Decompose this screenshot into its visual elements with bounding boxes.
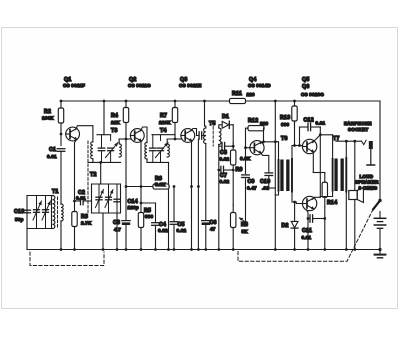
wire earphone line (336, 140, 362, 142)
wire T7 secondary bottom to ground (345, 192, 347, 250)
wire R5 top to C4 (141, 202, 156, 204)
capacitor C4 (155, 203, 157, 222)
capacitor C13 plates (24, 209, 31, 211)
svg-text:0.01: 0.01 (47, 154, 57, 159)
svg-text:Q5: Q5 (302, 77, 310, 83)
inductor T7 primary winding line (332, 159, 334, 191)
wire right rail down to switch (379, 101, 381, 200)
transistor Q5 (302, 139, 316, 153)
wire C1 to T1 secondary (60, 151, 62, 204)
svg-text:T4: T4 (160, 128, 167, 134)
inductor T3 winding (119, 144, 121, 157)
wire R4 to Q2 base (125, 135, 127, 139)
earphone switch contact (362, 140, 367, 144)
svg-text:C13: C13 (14, 209, 24, 215)
svg-text:T1: T1 (52, 189, 59, 195)
node top rail R4 (125, 100, 128, 103)
wire speaker to ground (354, 200, 356, 250)
svg-text:T3: T3 (111, 128, 118, 134)
svg-text:0.01: 0.01 (76, 196, 86, 201)
capacitor C12 (300, 126, 308, 128)
svg-text:CS 9011H: CS 9011H (179, 83, 202, 88)
svg-text:C3: C3 (113, 220, 120, 226)
wire long supply drop (274, 101, 276, 250)
wire R13 to Q5 base (294, 121, 296, 146)
capacitor C6 electrolytic (202, 220, 210, 222)
svg-text:C1: C1 (49, 147, 56, 153)
node R3 ground (73, 248, 76, 251)
node R4 T3 junction (125, 138, 128, 141)
dashed gang link left (30, 252, 104, 266)
node Q2 emitter R5 (140, 202, 143, 205)
inductor T5 secondary winding (219, 128, 221, 145)
svg-text:CS 9014D: CS 9014D (248, 83, 271, 88)
inductor T1 secondary winding (61, 204, 63, 221)
wire T3 bus drop to oscillator box (100, 162, 102, 184)
svg-text:SOCKET: SOCKET (348, 127, 368, 132)
svg-text:C9: C9 (248, 179, 255, 185)
svg-text:EARPHONE: EARPHONE (344, 121, 372, 126)
earphone jack stem (370, 149, 372, 165)
svg-text:LOUD: LOUD (360, 174, 374, 179)
earphone jack tip (369, 141, 373, 149)
wire R12 left to Q4 base (245, 128, 247, 148)
resistor R6 (126, 186, 153, 188)
wire R14 bottom to ground (324, 207, 326, 250)
wire Q6 collector up (313, 197, 321, 199)
wire T4 bus drop to ground (168, 162, 170, 249)
wire Q4 emitter to C10 (261, 153, 269, 172)
inductor T4 winding (167, 144, 169, 157)
resistor R11 in top rail (229, 100, 231, 102)
wire switch to battery (379, 212, 381, 218)
wire battery to ground rail (379, 228, 381, 249)
svg-text:4.7: 4.7 (114, 227, 121, 232)
svg-text:5K: 5K (242, 229, 249, 234)
wire bottom ground rail (27, 249, 381, 251)
wire T5 secondary bottom down (218, 145, 220, 250)
svg-text:R11: R11 (232, 91, 242, 97)
svg-text:Q6: Q6 (302, 84, 310, 90)
wire Q4 collector junction (260, 142, 278, 144)
node switch pivot (378, 199, 381, 202)
node C5 top (173, 185, 176, 188)
svg-text:0.47: 0.47 (247, 186, 257, 191)
svg-text:R8: R8 (241, 222, 248, 228)
wire Q2 emitter down (140, 142, 142, 203)
wire Q3 emitter down (191, 142, 193, 250)
variable capacitor oscillator a (98, 184, 100, 213)
svg-text:R12: R12 (248, 118, 258, 124)
wire top supply rail right of R11 (246, 100, 381, 102)
inductor T6 secondary winding line (291, 159, 293, 192)
inductor T2 feedback winding (91, 142, 93, 159)
wire emitter to R14 line (313, 172, 325, 174)
node C4 ground (154, 248, 157, 251)
wire Q1 emitter down (75, 139, 77, 198)
capacitor C14 padder (116, 184, 118, 213)
svg-text:50p: 50p (15, 217, 24, 222)
wire C12 right leg to collector node (319, 127, 321, 135)
capacitor C11 (308, 218, 309, 220)
core of T1 dashed (57, 197, 59, 227)
capacitor C8 (219, 145, 222, 147)
svg-text:C12: C12 (304, 118, 314, 124)
svg-text:SPEAKER: SPEAKER (355, 180, 379, 185)
wire Q5 collector to T7 line (313, 135, 333, 143)
svg-text:22K: 22K (111, 120, 121, 125)
wire T6 primary bottom to supply (275, 191, 278, 196)
inductor T7 secondary winding line (345, 158, 347, 192)
trimmer capacitor T4 (160, 135, 162, 141)
variable capacitor gang section b (45, 196, 47, 229)
svg-text:820: 820 (260, 121, 269, 126)
node C6 ground (204, 248, 207, 251)
resistor R7 (174, 101, 176, 108)
capacitor C1 (57, 148, 65, 150)
wire T6 secondary top to Q5 base (292, 146, 302, 160)
svg-text:C8: C8 (220, 150, 227, 156)
node C3 ground (125, 248, 128, 251)
svg-text:T6: T6 (281, 136, 288, 142)
svg-text:8 OHMS: 8 OHMS (359, 186, 378, 191)
svg-text:T5: T5 (209, 121, 216, 127)
transistor Q2 (130, 129, 144, 143)
svg-text:100K: 100K (42, 116, 54, 121)
svg-text:R14: R14 (327, 200, 337, 206)
dashed core T5 (212, 127, 214, 147)
wire T4 top bus (152, 134, 175, 136)
wire speaker feed (354, 141, 356, 190)
svg-text:220K: 220K (159, 120, 171, 125)
wire wiper to C9 (245, 179, 247, 222)
variable capacitor gang section a (36, 196, 38, 229)
dashed core T2 (87, 141, 89, 213)
wire T1 secondary to ground rail (60, 221, 62, 250)
core T7 bar right (341, 159, 344, 192)
svg-text:C11: C11 (302, 228, 312, 234)
capacitor C5 (173, 187, 175, 222)
svg-text:R7: R7 (160, 113, 167, 119)
transistor Q3 (181, 129, 195, 143)
svg-text:0.01: 0.01 (302, 235, 312, 240)
trimmer capacitor T3 (110, 135, 112, 141)
node C8 right (232, 145, 235, 148)
svg-text:R13: R13 (280, 115, 290, 121)
wire C6 to ground rail (205, 225, 207, 249)
earphone jack base (367, 164, 375, 166)
dashed switch link (238, 209, 374, 262)
core T6 bar left (280, 160, 283, 192)
svg-text:C6: C6 (210, 220, 217, 226)
core T7 bar left (334, 159, 337, 192)
wire T7 primary bottom to push pull (320, 191, 332, 197)
svg-text:390: 390 (145, 214, 154, 219)
wire Q2 collector to T4 winding (140, 127, 147, 143)
resistor R2 (60, 101, 62, 108)
wire R7 to Q3 base (174, 135, 176, 139)
svg-text:CS 9011F: CS 9011F (63, 83, 85, 88)
wire Q3 collector to coupling cap (191, 129, 197, 136)
wire C2 left junction (74, 199, 76, 206)
wire T4 winding bottom to bus (146, 159, 148, 162)
capacitor T4 tank cap (152, 135, 154, 148)
transistor Q1 (66, 127, 80, 141)
node R7 T4 junction (174, 138, 177, 141)
wire oscillator box left to ground rail (102, 213, 104, 250)
wire rail drop to T3 top bus (103, 101, 105, 135)
svg-text:680: 680 (281, 122, 290, 127)
node top rail R7 (174, 100, 177, 103)
node R6 left (125, 185, 128, 188)
capacitor C10 (265, 172, 273, 174)
wire R9 to R8 (232, 170, 234, 205)
svg-text:.01: .01 (262, 186, 269, 191)
resistor R4 (125, 101, 127, 108)
svg-text:T2: T2 (90, 172, 97, 178)
svg-text:D2: D2 (282, 223, 289, 229)
wire gang box to ground rail (26, 229, 28, 250)
ground symbol (379, 250, 381, 255)
svg-text:0.02: 0.02 (220, 179, 230, 184)
resistor R5 (140, 203, 142, 213)
wire R2 to Q1 base junction (60, 130, 62, 146)
svg-text:47: 47 (210, 227, 216, 232)
svg-text:R3: R3 (81, 214, 88, 220)
svg-text:220: 220 (247, 92, 256, 97)
wiper arrow R8 (240, 218, 246, 222)
transistor Q4 (250, 141, 264, 155)
wire T7 secondary top to earphone line (345, 141, 347, 158)
svg-text:CS 9013G: CS 9013G (301, 92, 324, 97)
node C7 junction (232, 169, 235, 172)
core T6 bar right (286, 160, 289, 192)
loudspeaker (349, 191, 357, 200)
svg-text:0.02: 0.02 (158, 228, 168, 233)
wire T3 bottom bus (88, 161, 121, 163)
tuning gang box C13 (27, 196, 52, 229)
wire T5 primary bottom to C6 line (205, 144, 207, 221)
wire T2 winding bottom to bus (92, 159, 94, 163)
capacitor C9 (242, 174, 250, 176)
resistor R3 (74, 205, 76, 212)
svg-text:2.7K: 2.7K (81, 221, 92, 226)
wire R4 line down to R6 line (125, 139, 127, 187)
svg-text:R4: R4 (111, 113, 118, 119)
on-off switch lever (373, 201, 380, 209)
diode D1 (222, 121, 229, 128)
wire Q5 emitter down (311, 151, 314, 173)
capacitor Q3 collector coupling (197, 135, 199, 137)
transistor Q6 (302, 196, 316, 210)
wire T3 winding top to R4 line (119, 139, 126, 144)
variable capacitor oscillator b (108, 184, 110, 213)
capacitor C7 (219, 169, 220, 171)
node AGC R6 (197, 185, 200, 188)
wire C2 right to oscillator box (83, 200, 91, 202)
svg-text:0.02: 0.02 (220, 157, 230, 162)
node D2 tap (293, 201, 296, 204)
wire T6 secondary bottom to Q6 base (292, 192, 302, 204)
wire oscillator box right to ground rail (116, 213, 118, 250)
wire T6 primary top (278, 142, 280, 160)
svg-text:5.6K: 5.6K (155, 182, 166, 187)
resistor R12 (246, 127, 249, 129)
diode D2 (294, 202, 296, 221)
svg-text:0.01: 0.01 (316, 121, 326, 126)
wire AGC line drop (197, 139, 199, 249)
svg-text:R9: R9 (236, 167, 243, 173)
node D2 ground (293, 248, 296, 251)
svg-text:120p: 120p (128, 205, 139, 210)
wire C9 to Q4 base (245, 148, 247, 174)
wire Q6 emitter down (307, 210, 309, 250)
wire rail drop to T5 primary (204, 101, 206, 126)
svg-text:R2: R2 (44, 109, 51, 115)
inductor T4 feedback winding (145, 143, 147, 160)
svg-text:D1: D1 (222, 114, 229, 120)
wire T7 primary top to collector line (332, 135, 334, 159)
wire R12 right to collector node (263, 128, 265, 142)
wire D1 cathode down (232, 125, 234, 143)
wire push pull vertical (319, 135, 321, 198)
wire top supply rail left of R11 (61, 100, 230, 102)
wire C10 bottom to supply line (269, 187, 276, 189)
resistor R13 (294, 101, 296, 106)
wire Q4 base lead (246, 147, 250, 149)
svg-text:0.02: 0.02 (177, 228, 187, 233)
wire T4 bottom bus (147, 161, 169, 163)
wire Q1 collector to T2 primary (76, 126, 93, 142)
node R8 ground (232, 248, 235, 251)
capacitor T3 tank cap (101, 135, 103, 148)
svg-text:C10: C10 (260, 179, 270, 185)
node top rail R13 (293, 100, 296, 103)
oscillator tuning box (92, 184, 121, 213)
wire T4 winding top to R7 line (167, 139, 175, 144)
inductor T5 primary winding (205, 126, 206, 128)
inductor T6 primary winding line (278, 160, 280, 191)
node Q1 base (60, 133, 63, 136)
potentiometer R8 (232, 205, 234, 213)
svg-text:CS 9011G: CS 9011G (128, 83, 151, 88)
battery B1 (374, 217, 385, 219)
node top rail R2 (60, 100, 63, 103)
resistor R9 (232, 143, 234, 150)
inductor T1 primary winding (53, 196, 55, 229)
wire C12 left leg (299, 127, 301, 146)
resistor R14 (324, 173, 326, 183)
capacitor C2 (75, 200, 81, 202)
wire T5 secondary top to D1 (219, 125, 222, 128)
wire T3 top bus (97, 134, 111, 136)
capacitor C3 electrolytic (125, 187, 127, 220)
